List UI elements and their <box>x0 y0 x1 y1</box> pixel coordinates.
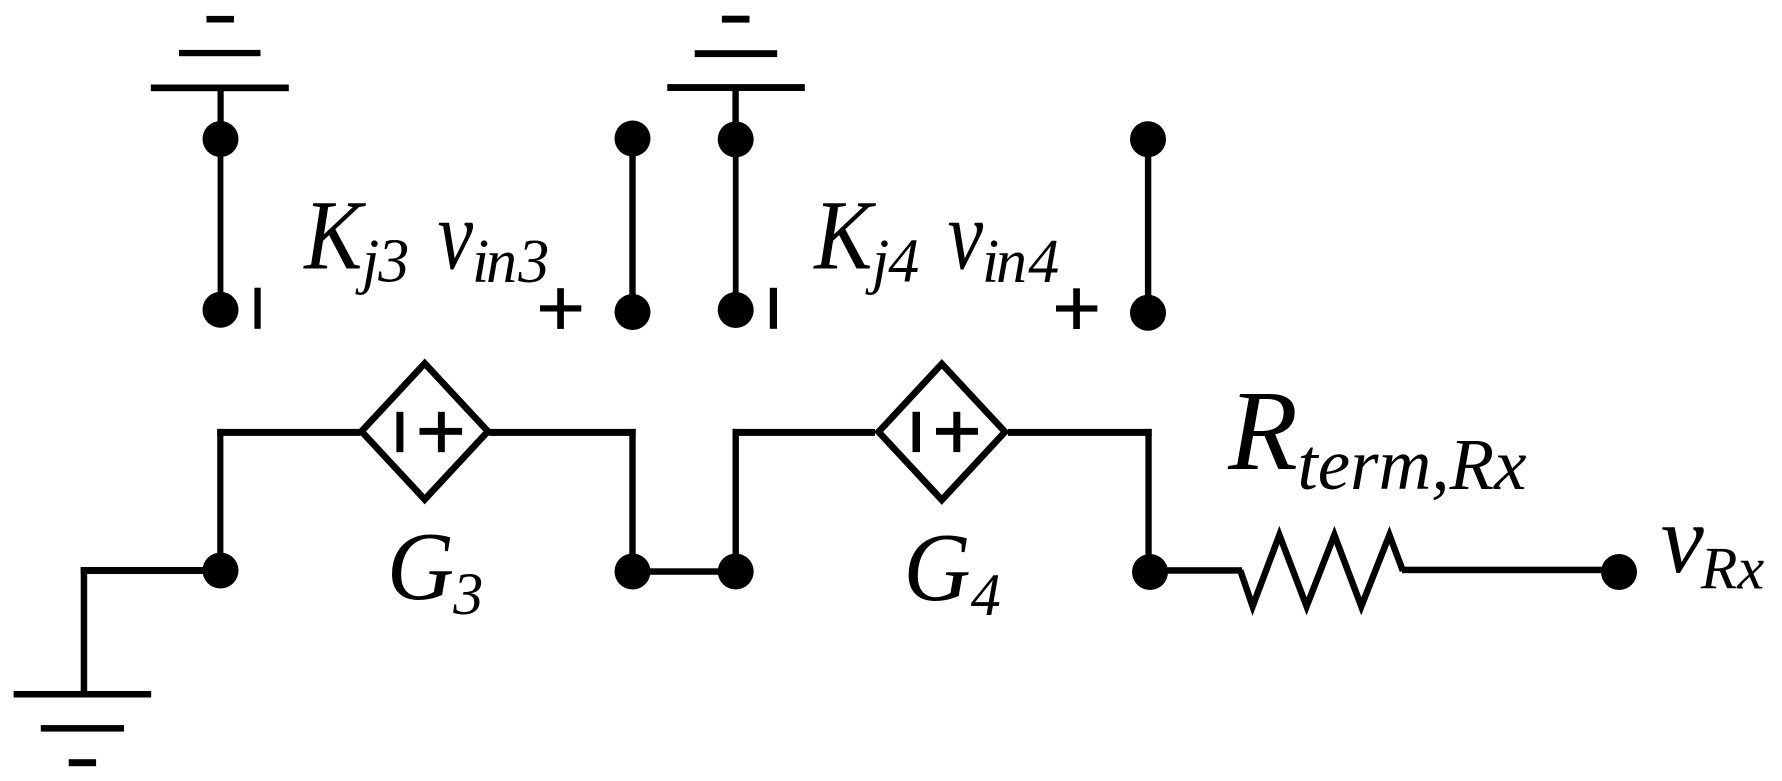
node dot N2 <box>203 292 239 328</box>
svg-text:3: 3 <box>452 561 483 627</box>
G4 plus (inside diamond) <box>936 412 978 452</box>
wire vertical at x632 <box>629 429 635 572</box>
port P1 bottom dot <box>615 294 651 330</box>
plus marker at port P1 <box>540 288 581 329</box>
svg-text:Rx: Rx <box>1700 536 1765 602</box>
wire main row between G3 and node B <box>489 429 636 436</box>
wire N1-N2 vertical <box>218 139 224 310</box>
G3 minus bar (inside diamond) <box>396 412 403 452</box>
svg-text:K: K <box>302 180 366 291</box>
controlled source G3 diamond <box>362 363 488 499</box>
ground GND2 (top-middle, flipped up) <box>667 16 805 127</box>
port P1 wire <box>629 139 635 313</box>
wire node C to resistor <box>1150 567 1242 574</box>
node dot N5 (left junction) <box>203 553 239 589</box>
wire main row left <box>217 429 360 436</box>
ground GND3 (bottom-left) <box>14 691 152 766</box>
port P1 top dot <box>615 121 651 157</box>
label Rterm,Rx <box>1227 367 1526 505</box>
svg-text:R: R <box>1227 367 1298 494</box>
wire resistor to node vRx <box>1402 567 1620 574</box>
minus marker (rotated) at N4 <box>770 288 777 329</box>
wire vertical at x1148 <box>1145 429 1151 572</box>
svg-text:3: 3 <box>377 228 409 296</box>
port P2 wire <box>1145 139 1151 313</box>
svg-text:G: G <box>387 512 454 621</box>
node dot B <box>718 554 754 590</box>
G3 plus (inside diamond) <box>420 412 463 452</box>
wire N3-N4 vertical <box>733 139 739 310</box>
controlled source G4 diamond <box>879 364 1005 500</box>
G4 minus bar (inside diamond) <box>913 412 921 452</box>
node dot vRx <box>1601 554 1637 590</box>
svg-text:term,Rx: term,Rx <box>1298 424 1527 505</box>
minus marker (rotated) at N2 <box>254 288 260 329</box>
plus marker at port P2 <box>1056 288 1097 329</box>
svg-text:in4: in4 <box>982 228 1059 296</box>
wire vertical at x735 <box>733 429 739 572</box>
ground GND1 (top-left, flipped up) <box>151 16 289 127</box>
label vRx <box>1661 486 1765 602</box>
node dot N3 (GND2 stem) <box>718 121 754 157</box>
port P2 bottom dot <box>1130 295 1166 331</box>
label G3 <box>387 512 483 627</box>
wire vertical down to GND3 <box>81 567 88 691</box>
svg-text:v: v <box>438 179 474 291</box>
svg-text:G: G <box>904 513 971 622</box>
node dot A <box>615 554 651 590</box>
svg-text:v: v <box>948 179 984 291</box>
svg-text:K: K <box>812 180 876 291</box>
svg-text:in3: in3 <box>472 228 549 296</box>
wire main row right of G4 <box>1008 429 1152 436</box>
wire main row between node B and G4 <box>733 429 876 436</box>
svg-text:v: v <box>1661 486 1705 593</box>
node dot N1 (GND1 stem) <box>203 121 239 157</box>
port P2 top dot <box>1130 121 1166 157</box>
resistor Rterm,Rx zigzag <box>1240 535 1403 606</box>
node dot N4 <box>718 292 754 328</box>
svg-text:4: 4 <box>888 228 919 296</box>
svg-text:4: 4 <box>971 562 1001 628</box>
wire vertical at x220 (main to node A) <box>217 429 223 571</box>
node dot C <box>1132 554 1168 590</box>
wire link A-B <box>633 568 736 575</box>
wire node A row to left <box>81 567 221 574</box>
label G4 <box>904 513 1001 628</box>
label Kj3 vin3 <box>302 179 549 296</box>
label Kj4 vin4 <box>812 179 1059 296</box>
